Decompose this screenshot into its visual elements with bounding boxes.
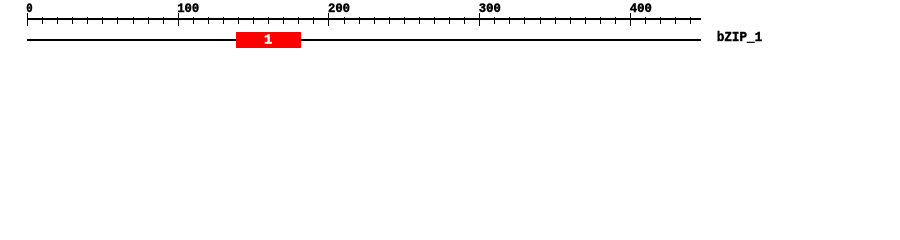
- protein domain ruler diagram: [0, 0, 900, 58]
- domain match box 1 (red): [236, 32, 301, 48]
- svg-text:1: 1: [264, 34, 272, 49]
- dashed-zero marks: [29, 7, 30, 9]
- svg-text:bZIP_1: bZIP_1: [717, 30, 762, 46]
- sequence line: [27, 39, 701, 41]
- ruler major ticks: [28, 13, 631, 26]
- ruler minor ticks: [43, 17, 691, 24]
- ruler scale line: [27, 18, 701, 20]
- background: [0, 0, 900, 58]
